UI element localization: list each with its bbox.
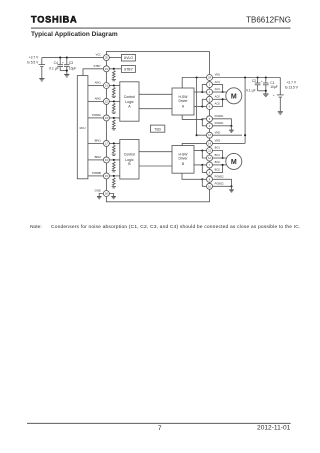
svg-text:BO2: BO2 [215,160,221,164]
wire PGND1 lower [212,125,231,127]
wire driver B to BO1 [194,150,207,152]
svg-text:C4: C4 [54,61,58,65]
pin AIN2 [103,98,109,104]
svg-text:PGND1: PGND1 [215,121,224,125]
svg-text:+2.7 V: +2.7 V [287,80,297,84]
svg-text:AO2: AO2 [215,95,221,99]
wire AIN2 to control logic A [109,100,120,102]
junction PGND2 bracket [201,178,203,180]
svg-text:to 13.5 V: to 13.5 V [285,86,299,90]
ground (PGND2) [229,190,233,192]
wire internal VM rail [196,78,198,136]
wire C4 bottom to C3 bottom [60,70,67,72]
junction pull-down BIN1 [113,142,115,144]
junction pull-down PWMB [113,175,115,177]
svg-text:7: 7 [158,425,162,432]
wire MCU to BIN2 [88,159,104,161]
wire PGND2 upper [212,179,231,186]
svg-text:BO1: BO1 [215,146,221,150]
wire VCC pin to UVLO block [109,57,121,59]
svg-text:VCC: VCC [96,53,102,57]
resistor pull-down BIN2 [113,162,116,170]
junction C2 rail [257,76,259,78]
wire AO2 to motor A [212,98,227,100]
label H-SW Driver B [178,153,188,167]
svg-text:C3: C3 [69,61,73,65]
ground (pull-down AIN1) [112,96,116,97]
wire AIN1 to control logic A [109,85,120,87]
pin PGND1 [207,116,213,122]
label H-SW Driver A [178,95,188,109]
svg-text:VM1: VM1 [215,73,221,77]
motor A [226,88,242,104]
svg-text:10µF: 10µF [69,66,77,70]
junction pull-down AIN1 [113,84,115,86]
svg-text:Control: Control [124,153,136,157]
svg-text:+: + [273,93,275,97]
H-SW driver A block [172,88,194,115]
pin PGND2 [207,183,213,189]
wire driver B ground to PGND2 [182,173,202,179]
pin STBY [103,66,109,72]
TSD block [151,125,165,132]
wire PWMB to control logic B [109,175,120,177]
svg-text:BIN1: BIN1 [95,139,102,143]
motor B [226,153,242,169]
junction motor B bottom [222,164,224,166]
ground (GND pin left) [97,197,102,199]
pin PGND2 [207,176,213,182]
svg-text:PGND2: PGND2 [215,175,224,179]
wire PGND2 to ground [231,186,233,189]
junction BO2 pair [201,164,203,166]
wire rail corner to VM3 [242,142,245,144]
svg-text:Control: Control [124,95,136,99]
svg-text:AO1: AO1 [215,80,221,84]
svg-text:+: + [261,79,263,83]
MCU controller box [77,76,88,179]
wire STBY pin to MCU [83,69,104,76]
svg-text:TB6612FNG: TB6612FNG [246,15,291,24]
footer rule [27,422,291,424]
resistor pull-down PWMB [113,178,116,186]
pin BO1 [207,148,213,154]
control logic B block [120,140,139,180]
wire VM1 to driver A top [182,78,207,89]
wire control logic A to driver A (1) [139,93,172,95]
ground (pull-down PWMA) [112,129,116,130]
svg-text:0.1 µF: 0.1 µF [246,89,255,93]
wire BO2 pair bracket [202,165,206,173]
pin GND [103,191,109,197]
svg-text:PWMB: PWMB [92,171,101,175]
junction capacitor commons [66,70,68,72]
resistor pull-down PWMA [113,120,116,128]
wire PGND2 lower [212,185,231,187]
svg-text:+2.7 V: +2.7 V [29,55,39,59]
wire BO2 to motor B [212,164,227,166]
wire PGND1 pair bracket [202,119,206,126]
junction motor A bottom [222,98,224,100]
svg-text:AO1: AO1 [215,87,221,91]
svg-text:TSD: TSD [154,127,161,131]
wire control logic B to driver B (2) [139,165,172,167]
wire BO1 to motor B junction [212,151,222,159]
junction motor B top [222,157,224,159]
pin BO2 [207,169,213,175]
junction pull-down BIN2 [113,159,115,161]
svg-text:Condensers for noise absorptio: Condensers for noise absorption (C1, C2,… [51,224,301,230]
wire BO1 to motor B [212,157,227,159]
svg-text:PWMA: PWMA [92,113,101,117]
wire MCU to PWMA [88,117,104,119]
pin PWMB [103,173,109,179]
ground (battery V2) [278,112,283,114]
svg-text:C2: C2 [252,79,256,83]
wire PGND2 pair bracket [202,179,206,186]
label Control Logic B [124,153,136,167]
wire GND pin right [109,194,113,197]
pin BIN1 [103,140,109,146]
junction C3/VCC rail [66,57,68,59]
wire BIN1 to control logic B [109,142,120,144]
ground (PGND1) [229,130,233,132]
pin BO2 [207,162,213,168]
junction PGND1 bracket [201,118,203,120]
wire driver A to AO1 [194,91,207,93]
svg-text:BIN2: BIN2 [95,155,102,159]
wire C2 bottom to C1 bottom [258,90,266,92]
svg-text:AO2: AO2 [215,102,221,106]
svg-text:STBY: STBY [93,64,100,68]
wire PWMA to control logic A [109,117,120,119]
wire AO1 to motor A junction [212,85,222,92]
junction internal VM rail to VM2 [196,134,198,136]
svg-text:AIN2: AIN2 [95,97,102,101]
svg-text:PGND1: PGND1 [215,114,224,118]
IC package outline [106,52,209,202]
svg-text:UVLO: UVLO [124,56,134,60]
UVLO block [121,54,135,61]
svg-text:to 5.5 V: to 5.5 V [27,61,39,65]
wire MCU to BIN1 [88,142,104,144]
wire BO2 to motor B junction [212,165,222,173]
pin VM3 [207,140,213,146]
wire MCU to AIN1 [88,85,104,87]
pin BO1 [207,155,213,161]
ground (pull-down AIN2) [112,112,116,113]
svg-text:STBY: STBY [124,67,134,71]
resistor pull-down BIN1 [113,145,116,153]
ground (GND pin right) [111,197,116,199]
pin PWMA [103,115,109,121]
ground (pull-down BIN1) [112,154,116,155]
wire AO2 to motor A junction [212,99,222,106]
ground (C1/C2) [263,94,268,97]
pin PGND1 [207,123,213,129]
control logic A block [120,82,139,121]
pin VCC [103,55,109,61]
wire AO1 pair bracket [202,85,206,92]
wire control logic A to driver A (2) [139,108,172,110]
wire driver A ground to PGND1 [182,115,202,119]
svg-text:0.1 µF: 0.1 µF [49,66,58,70]
pin AO2 [207,104,213,110]
capacitor C2 0.1uF [255,78,261,91]
wire PGND1 upper [212,119,231,126]
resistor pull-down AIN2 [113,103,116,111]
junction C4/VCC rail [59,57,61,59]
junction AO2 pair [201,105,203,107]
ground (pull-down PWMB) [112,187,116,188]
svg-text:M: M [231,93,237,100]
pin AO1 [207,82,213,88]
junction pull-down AIN2 [113,100,115,102]
junction capacitor commons right [265,90,267,92]
svg-text:Typical Application Diagram: Typical Application Diagram [31,31,118,38]
wire AO2 pair bracket [202,99,206,106]
wire VM supply rail top [212,77,280,79]
wire STBY pin to STBY block [109,68,121,70]
svg-text:BO2: BO2 [215,168,221,172]
wire driver A to AO2 [194,106,207,108]
capacitor C4 0.1uF [57,58,63,71]
svg-text:GND: GND [95,189,101,193]
wire MCU to PWMB [88,175,104,177]
pin BIN2 [103,157,109,163]
junction VM2 to rail [244,134,246,136]
junction motor A top [222,91,224,93]
svg-text:M: M [231,159,237,166]
wire BIN2 to control logic B [109,159,120,161]
resistor pull-down STBY [113,71,116,79]
pin VM2 [207,132,213,138]
H-SW driver B block [172,146,194,174]
svg-text:AIN1: AIN1 [95,81,102,85]
svg-text:10µF: 10µF [270,85,278,89]
STBY block [121,66,135,73]
svg-text:Driver: Driver [178,99,188,103]
svg-text:PGND2: PGND2 [215,182,224,186]
resistor pull-down AIN1 [113,88,116,96]
junction AO1 pair [201,91,203,93]
wire PGND1 to ground [230,126,232,130]
junction BO1 pair [201,149,203,151]
svg-text:BO1: BO1 [215,153,221,157]
wire VM2 pin [197,134,242,136]
capacitor C1 10uF [261,78,269,94]
ground (battery V1) [39,79,44,81]
ground (pull-down STBY) [112,80,116,81]
wire BO1 pair bracket [202,151,206,159]
svg-text:+: + [62,60,64,64]
wire VM3 to driver B top [182,143,242,145]
capacitor C3 10uF [62,58,70,74]
svg-text:VM2: VM2 [215,130,221,134]
svg-text:MCU: MCU [80,126,86,130]
label Control Logic A [124,95,136,109]
wire MCU to AIN2 [88,100,104,102]
junction VM1 internal rail [196,76,198,78]
junction VM rail branch [244,76,246,78]
battery V2 (motor supply) [273,78,284,112]
junction pull-down STBY [113,68,115,70]
battery V1 (logic supply) [39,58,45,79]
ground (C3/C4) [64,75,69,77]
junction pull-down PWMA [113,117,115,119]
wire GND pin left [99,194,103,197]
junction C1 rail [265,76,267,78]
pin AO1 [207,89,213,95]
ground (pull-down BIN2) [112,171,116,172]
svg-text:Driver: Driver [178,157,188,161]
svg-text:Note:: Note: [30,224,42,230]
junction PGND2 ground [230,185,232,187]
wire AO1 to motor A [212,91,227,93]
svg-text:VM3: VM3 [215,139,221,143]
pin VM1 [207,75,213,81]
svg-text:2012-11-01: 2012-11-01 [257,425,291,432]
header rule [31,27,291,29]
junction PGND1 ground [230,125,232,127]
wire VCC supply rail [42,57,104,59]
wire driver B to BO2 [194,164,207,166]
pin AIN1 [103,83,109,89]
pin AO2 [207,96,213,102]
svg-text:TOSHIBA: TOSHIBA [31,15,77,25]
wire VM rail branch down [244,78,246,144]
wire control logic B to driver B (1) [139,151,172,153]
